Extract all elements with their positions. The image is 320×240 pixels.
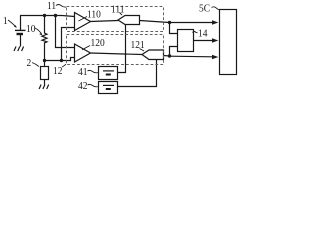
wire vertical from top rail down to U120 upper input — [56, 16, 75, 48]
tag 111 (pointed box) — [118, 16, 140, 25]
op-amp U120 triangle — [75, 44, 91, 62]
op-amp U110 triangle — [75, 13, 91, 31]
wire top rail from input corner to op-amp U110 — [20, 16, 75, 17]
node junction dot top rail at resistor — [43, 14, 46, 17]
wire arrow into block 5C (bottom) — [170, 55, 213, 58]
wire junction 121 up to block 14 lower input — [170, 47, 178, 57]
voltage source 42 (box with battery symbol) — [99, 82, 118, 94]
dashed box 12 — [67, 35, 164, 65]
leader for label 120 — [82, 46, 90, 50]
ground (below resistor 2) — [39, 85, 49, 90]
leader for label 110 — [79, 17, 88, 22]
resistor 2 (rectangle body) — [41, 67, 49, 80]
voltage source 41 (box with battery symbol) — [99, 67, 118, 80]
svg-text:11: 11 — [47, 0, 56, 12]
wire tag 121 bottom pin down to source 42 — [118, 60, 157, 87]
wire junction 111 down to block 14 upper input — [170, 23, 178, 34]
node junction dot at 121 output — [168, 54, 171, 57]
svg-text:1: 1 — [3, 16, 8, 28]
svg-text:121: 121 — [131, 39, 145, 51]
svg-text:110: 110 — [87, 9, 101, 21]
node junction dot bottom rail at x61 branch — [60, 59, 63, 62]
tag 121 (pointed box) — [142, 50, 164, 60]
leader for label 12 — [62, 64, 66, 67]
wire bottom rail to U120 lower input — [45, 58, 75, 61]
node junction dot at 111 output — [168, 21, 171, 24]
capacitor (unlabeled) top plate — [15, 29, 26, 31]
wire capacitor to ground — [20, 35, 22, 47]
wire arrow into block 5C (top) — [170, 22, 213, 24]
leader for label 10 — [35, 28, 42, 34]
leader for label 42 (tilde) — [88, 84, 99, 86]
wire tag 111 bottom pin down to source 41 — [118, 25, 126, 73]
svg-text:120: 120 — [91, 37, 105, 49]
leader for label 121 — [140, 49, 145, 52]
wire block 14 output arrow into block 5C (middle) — [194, 40, 213, 42]
block 5C (large rectangle) — [220, 10, 237, 75]
wire input corner vertical down to capacitor — [20, 16, 22, 31]
capacitor bottom plate — [17, 33, 24, 35]
resistor 10 (zigzag) with wires to both rails — [42, 16, 47, 61]
leader for label 11 (tilde) — [56, 5, 66, 8]
svg-text:12: 12 — [53, 65, 62, 77]
svg-text:5C: 5C — [199, 3, 210, 15]
wire rectangle to ground — [44, 80, 46, 85]
wire tag 111 output to junction — [140, 21, 170, 23]
svg-text:10: 10 — [26, 23, 35, 35]
leader for label 111 — [120, 13, 123, 16]
leader for label 41 (tilde) — [88, 70, 99, 72]
node junction dot bottom rail at resistor — [43, 59, 46, 62]
leader for label 2 — [32, 63, 39, 67]
wire tag 121 output to junction — [164, 55, 170, 58]
wire U120 output to tag 121 — [91, 53, 143, 55]
wire from bottom rail up to U110 lower input — [62, 28, 75, 61]
svg-text:14: 14 — [198, 28, 207, 40]
ground (below capacitor) — [14, 47, 24, 52]
leader for label 14 (tilde) — [193, 32, 198, 33]
dashed box 11 — [67, 7, 164, 32]
svg-text:2: 2 — [27, 57, 32, 69]
svg-text:111: 111 — [111, 4, 124, 16]
wire U110 output to tag 111 — [91, 21, 119, 22]
node junction dot top rail at x55 branch — [54, 14, 57, 17]
svg-text:41: 41 — [78, 66, 87, 78]
terminal 2 component wire from rail — [44, 61, 46, 67]
svg-text:42: 42 — [78, 80, 87, 92]
leader for label 1 — [8, 20, 16, 27]
leader for label 5C (tilde) — [212, 7, 220, 10]
block 14 (rectangle) — [178, 30, 194, 52]
